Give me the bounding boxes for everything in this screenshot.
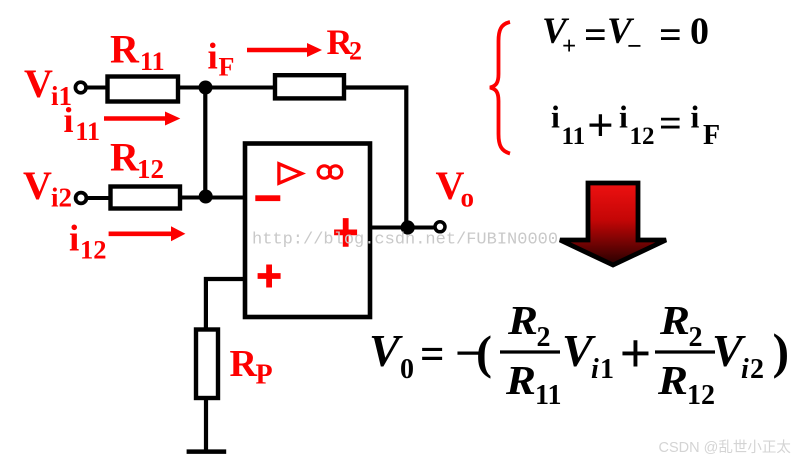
op-amp gain triangle symbol	[279, 164, 302, 183]
wire RP to ground	[204, 398, 208, 450]
svg-text:i: i	[591, 354, 599, 385]
svg-text:12: 12	[687, 380, 715, 411]
wire op-amp non-inverting input to RP	[206, 279, 245, 329]
svg-text:1: 1	[600, 354, 614, 385]
svg-text:o: o	[461, 183, 475, 213]
ground	[187, 449, 227, 454]
current arrow i11	[104, 116, 168, 120]
svg-text:+: +	[587, 100, 614, 152]
svg-text:R: R	[505, 357, 536, 403]
svg-text:0: 0	[400, 354, 414, 385]
svg-text:2: 2	[750, 354, 764, 385]
terminal Vo	[435, 222, 445, 232]
resistor RP	[196, 330, 218, 399]
resistor R11	[108, 77, 179, 102]
wire op-amp output to terminal	[370, 226, 436, 230]
svg-text:11: 11	[140, 47, 165, 76]
fraction 2 bar	[655, 350, 715, 353]
svg-text:R: R	[110, 27, 140, 72]
svg-text:0: 0	[690, 11, 709, 53]
node C output junction dot	[401, 220, 415, 234]
op-amp non-inverting input plus sign	[258, 265, 281, 288]
wire node A down to node B	[203, 88, 207, 197]
op-amp U1 body	[245, 144, 370, 318]
svg-text:2: 2	[349, 37, 362, 66]
op-amp infinity symbol right loop	[329, 166, 341, 178]
node A junction dot	[199, 81, 213, 95]
svg-text:11: 11	[75, 117, 100, 146]
svg-text:2: 2	[689, 322, 703, 353]
svg-text:+: +	[620, 323, 652, 385]
wire Vi1 terminal to R11	[86, 86, 107, 90]
svg-text:CSDN @乱世小正太: CSDN @乱世小正太	[659, 439, 792, 456]
current arrow i12	[109, 232, 173, 237]
svg-text:R: R	[507, 297, 538, 343]
svg-text:=: =	[420, 328, 445, 379]
svg-text:http://blog.csdn.net/FUBIN0000: http://blog.csdn.net/FUBIN0000	[252, 231, 558, 250]
svg-text:i: i	[619, 99, 628, 135]
wire R12 through node B to op-amp inverting input	[180, 196, 245, 200]
svg-text:12: 12	[630, 123, 655, 150]
svg-text:+: +	[562, 33, 576, 60]
svg-text:i: i	[741, 354, 749, 385]
svg-text:11: 11	[562, 123, 586, 150]
svg-text:i: i	[208, 37, 218, 78]
svg-text:(: (	[476, 327, 492, 380]
big red implication arrow	[560, 183, 666, 265]
svg-text:2: 2	[537, 322, 551, 353]
resistor R12	[111, 187, 181, 209]
svg-text:=: =	[584, 12, 607, 57]
svg-text:=: =	[659, 12, 682, 57]
svg-text:i2: i2	[51, 183, 72, 213]
svg-text:V: V	[23, 163, 52, 208]
op-amp inverting input minus sign	[255, 195, 280, 201]
svg-text:F: F	[219, 53, 235, 82]
svg-text:V: V	[24, 61, 53, 106]
svg-text:R: R	[657, 357, 688, 403]
svg-text:): )	[773, 323, 790, 379]
svg-text:12: 12	[80, 234, 107, 264]
svg-text:12: 12	[137, 154, 164, 184]
op-amp output plus sign	[334, 218, 357, 247]
svg-text:i: i	[691, 99, 700, 135]
resistor R2	[275, 75, 344, 98]
brace	[490, 22, 510, 154]
svg-text:i: i	[551, 99, 560, 135]
current arrow iF	[247, 48, 309, 52]
wire Vi2 terminal to R12	[87, 196, 110, 200]
svg-text:=: =	[659, 100, 682, 145]
terminal Vi2	[76, 193, 87, 204]
wire R11 to node A and on to R2	[178, 86, 274, 90]
fraction 1 bar	[500, 350, 560, 353]
svg-text:11: 11	[535, 380, 561, 411]
svg-text:R: R	[230, 343, 258, 385]
svg-text:F: F	[703, 120, 720, 151]
svg-text:i: i	[69, 219, 79, 260]
node B junction dot	[199, 190, 213, 204]
wire R2 to output corner	[344, 88, 406, 223]
svg-text:i: i	[64, 100, 74, 140]
svg-text:P: P	[256, 360, 273, 391]
svg-text:R: R	[110, 134, 140, 179]
op-amp infinity symbol left loop	[318, 166, 330, 178]
terminal Vi1	[75, 82, 86, 93]
svg-text:V: V	[369, 325, 403, 376]
svg-text:R: R	[659, 297, 690, 343]
svg-text:−: −	[627, 32, 642, 61]
